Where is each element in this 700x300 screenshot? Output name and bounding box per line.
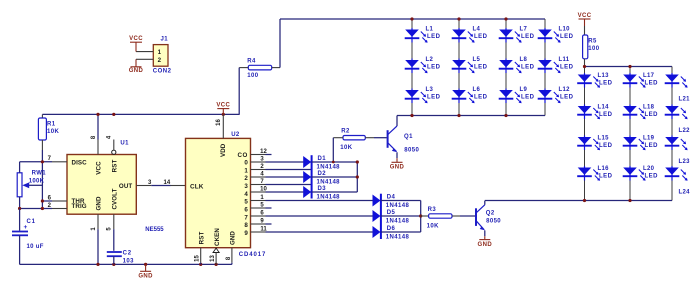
svg-text:103: 103 [123,259,134,265]
svg-text:L6: L6 [473,87,481,93]
svg-text:13: 13 [210,255,216,262]
svg-text:RST: RST [199,232,206,245]
svg-text:Q2: Q2 [486,210,495,216]
svg-text:D5: D5 [387,210,396,216]
svg-text:2: 2 [158,57,162,64]
svg-text:VDD: VDD [220,143,227,157]
svg-text:L19: L19 [643,136,655,142]
svg-text:LED: LED [599,112,613,118]
svg-text:L2: L2 [426,57,434,63]
svg-text:CVOLT: CVOLT [112,188,119,209]
svg-text:3: 3 [244,183,248,190]
svg-text:R4: R4 [247,59,256,65]
svg-text:1: 1 [244,167,248,174]
svg-text:14: 14 [164,180,171,186]
svg-text:16: 16 [216,119,222,126]
svg-text:+: + [24,224,28,231]
svg-text:LED: LED [645,174,659,180]
svg-text:9: 9 [244,230,248,237]
svg-text:LED: LED [560,65,574,71]
svg-text:L18: L18 [643,105,655,111]
svg-text:10: 10 [260,186,267,192]
svg-text:RST: RST [112,160,119,173]
svg-text:NE555: NE555 [145,227,164,233]
svg-text:LED: LED [474,95,488,101]
svg-text:DISC: DISC [72,159,88,166]
svg-text:CLK: CLK [190,183,204,190]
svg-text:RW1: RW1 [32,170,47,176]
svg-text:LED: LED [645,143,659,149]
svg-text:L23: L23 [679,159,691,165]
svg-text:1N4148: 1N4148 [317,180,341,186]
svg-text:GND: GND [138,274,153,280]
svg-text:8050: 8050 [486,219,501,225]
svg-text:LED: LED [521,34,535,40]
svg-text:11: 11 [260,226,267,232]
svg-text:R2: R2 [341,129,350,135]
svg-text:10K: 10K [427,223,439,229]
svg-text:1N4148: 1N4148 [386,203,410,209]
svg-text:U1: U1 [120,140,129,146]
svg-text:7: 7 [244,214,248,221]
svg-text:100: 100 [247,73,258,79]
svg-text:10K: 10K [47,129,59,135]
svg-text:U2: U2 [231,132,240,138]
svg-text:C2: C2 [123,251,132,257]
svg-text:L24: L24 [679,190,691,196]
svg-text:GND: GND [230,231,237,245]
svg-text:D1: D1 [318,156,327,162]
svg-text:L12: L12 [559,87,571,93]
svg-text:100K: 100K [29,179,45,185]
svg-text:LED: LED [474,65,488,71]
svg-text:1N4148: 1N4148 [386,235,410,241]
svg-text:VCC: VCC [578,13,592,19]
svg-text:L11: L11 [559,57,570,63]
svg-text:L22: L22 [679,128,691,134]
svg-text:CD4017: CD4017 [239,252,266,258]
svg-text:LED: LED [599,81,613,87]
svg-text:LED: LED [474,34,488,40]
svg-text:10 uF: 10 uF [27,244,44,250]
svg-text:Q1: Q1 [404,134,413,140]
svg-text:1N4148: 1N4148 [386,219,410,225]
svg-text:L20: L20 [643,166,655,172]
svg-text:LED: LED [599,143,613,149]
svg-text:L3: L3 [426,87,434,93]
svg-text:LED: LED [645,112,659,118]
svg-text:L15: L15 [598,136,610,142]
svg-text:10K: 10K [340,145,352,151]
svg-text:L4: L4 [473,27,481,33]
svg-text:CON2: CON2 [153,68,172,74]
svg-text:LED: LED [521,65,535,71]
svg-text:CO: CO [238,152,248,159]
svg-text:1N4148: 1N4148 [317,195,341,201]
svg-text:R5: R5 [588,38,597,44]
svg-text:LED: LED [427,65,441,71]
svg-text:1: 1 [158,49,162,56]
svg-text:L13: L13 [598,73,610,79]
svg-text:15: 15 [195,255,201,262]
svg-text:LED: LED [427,95,441,101]
svg-text:GND: GND [390,165,405,171]
svg-text:L8: L8 [520,57,528,63]
svg-text:L9: L9 [520,87,528,93]
svg-text:D4: D4 [387,195,396,201]
svg-text:LED: LED [599,174,613,180]
svg-text:LED: LED [521,95,535,101]
svg-text:1N4148: 1N4148 [317,165,341,171]
svg-text:L1: L1 [426,27,434,33]
svg-text:D3: D3 [318,186,327,192]
svg-text:0: 0 [244,160,248,167]
svg-text:D2: D2 [318,171,327,177]
svg-text:GND: GND [129,68,144,74]
svg-text:4: 4 [244,191,248,198]
svg-text:VCC: VCC [129,36,143,42]
svg-text:2: 2 [244,175,248,182]
svg-text:D6: D6 [387,226,396,232]
svg-text:5: 5 [244,199,248,206]
svg-text:VCC: VCC [96,161,103,175]
svg-text:OUT: OUT [119,183,132,190]
svg-text:TRIG: TRIG [72,203,87,210]
svg-text:GND: GND [478,242,493,248]
svg-text:L7: L7 [520,27,528,33]
svg-text:CKEN: CKEN [214,228,221,246]
svg-text:J1: J1 [161,37,169,43]
svg-text:R1: R1 [47,121,56,127]
svg-text:L10: L10 [559,27,571,33]
svg-text:L5: L5 [473,57,481,63]
svg-text:L21: L21 [679,97,691,103]
svg-text:8050: 8050 [404,147,419,153]
svg-text:12: 12 [260,149,267,155]
svg-text:R3: R3 [428,207,437,213]
svg-text:GND: GND [96,196,103,210]
svg-text:8: 8 [244,222,248,229]
svg-text:LED: LED [645,81,659,87]
svg-text:L14: L14 [598,105,610,111]
svg-text:LED: LED [427,34,441,40]
svg-text:LED: LED [560,34,574,40]
svg-text:C1: C1 [27,219,36,225]
svg-text:L16: L16 [598,166,610,172]
svg-text:L17: L17 [643,73,655,79]
svg-text:LED: LED [560,95,574,101]
svg-text:VCC: VCC [216,103,230,109]
svg-text:100: 100 [588,46,599,52]
svg-text:6: 6 [244,207,248,214]
